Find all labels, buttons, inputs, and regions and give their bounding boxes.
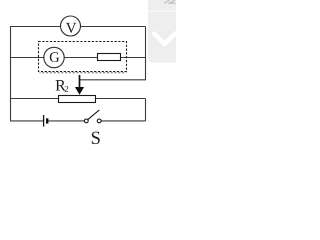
resistor R1 (series resistor in dashed box) (98, 54, 121, 61)
wire: bottom side right of switch (101, 120, 146, 122)
voltmeter V (61, 16, 81, 36)
label R of R2 (56, 80, 66, 90)
wire: top side (through V) (10, 26, 146, 28)
chevron-down icon (154, 34, 175, 45)
label V (voltmeter letter) (66, 23, 76, 33)
wire: wiper feed (right vertical corner to arrow) (80, 79, 146, 81)
wire: right vertical upper (145, 27, 147, 81)
rheostat wiper arrow (75, 75, 84, 95)
UI overlay panel (top-right) (148, 0, 176, 63)
dashed enclosure (G + R1 combination) (39, 42, 127, 72)
wire: rheostat row right (96, 98, 146, 100)
rheostat R2 body (59, 96, 96, 103)
wire: rheostat row left (10, 98, 59, 100)
galvanometer G (44, 47, 64, 67)
battery (cell) (44, 115, 48, 127)
label G (galvanometer letter) (50, 52, 59, 62)
wire: middle row (through G and R1) (10, 57, 146, 59)
wire: right vertical lower (145, 99, 147, 122)
wire: bottom side battery to switch (48, 120, 85, 122)
label S (switch) (92, 132, 100, 144)
partial glyph in panel header (164, 0, 176, 3)
dashed enclosure bottom emphasis (40, 72, 127, 74)
wire: left vertical (10, 27, 12, 122)
wire: bottom side left of battery (10, 120, 44, 122)
UI panel separator line (148, 11, 176, 12)
switch S (open knife switch) (84, 110, 101, 123)
label subscript 2 of R2 (65, 86, 69, 92)
